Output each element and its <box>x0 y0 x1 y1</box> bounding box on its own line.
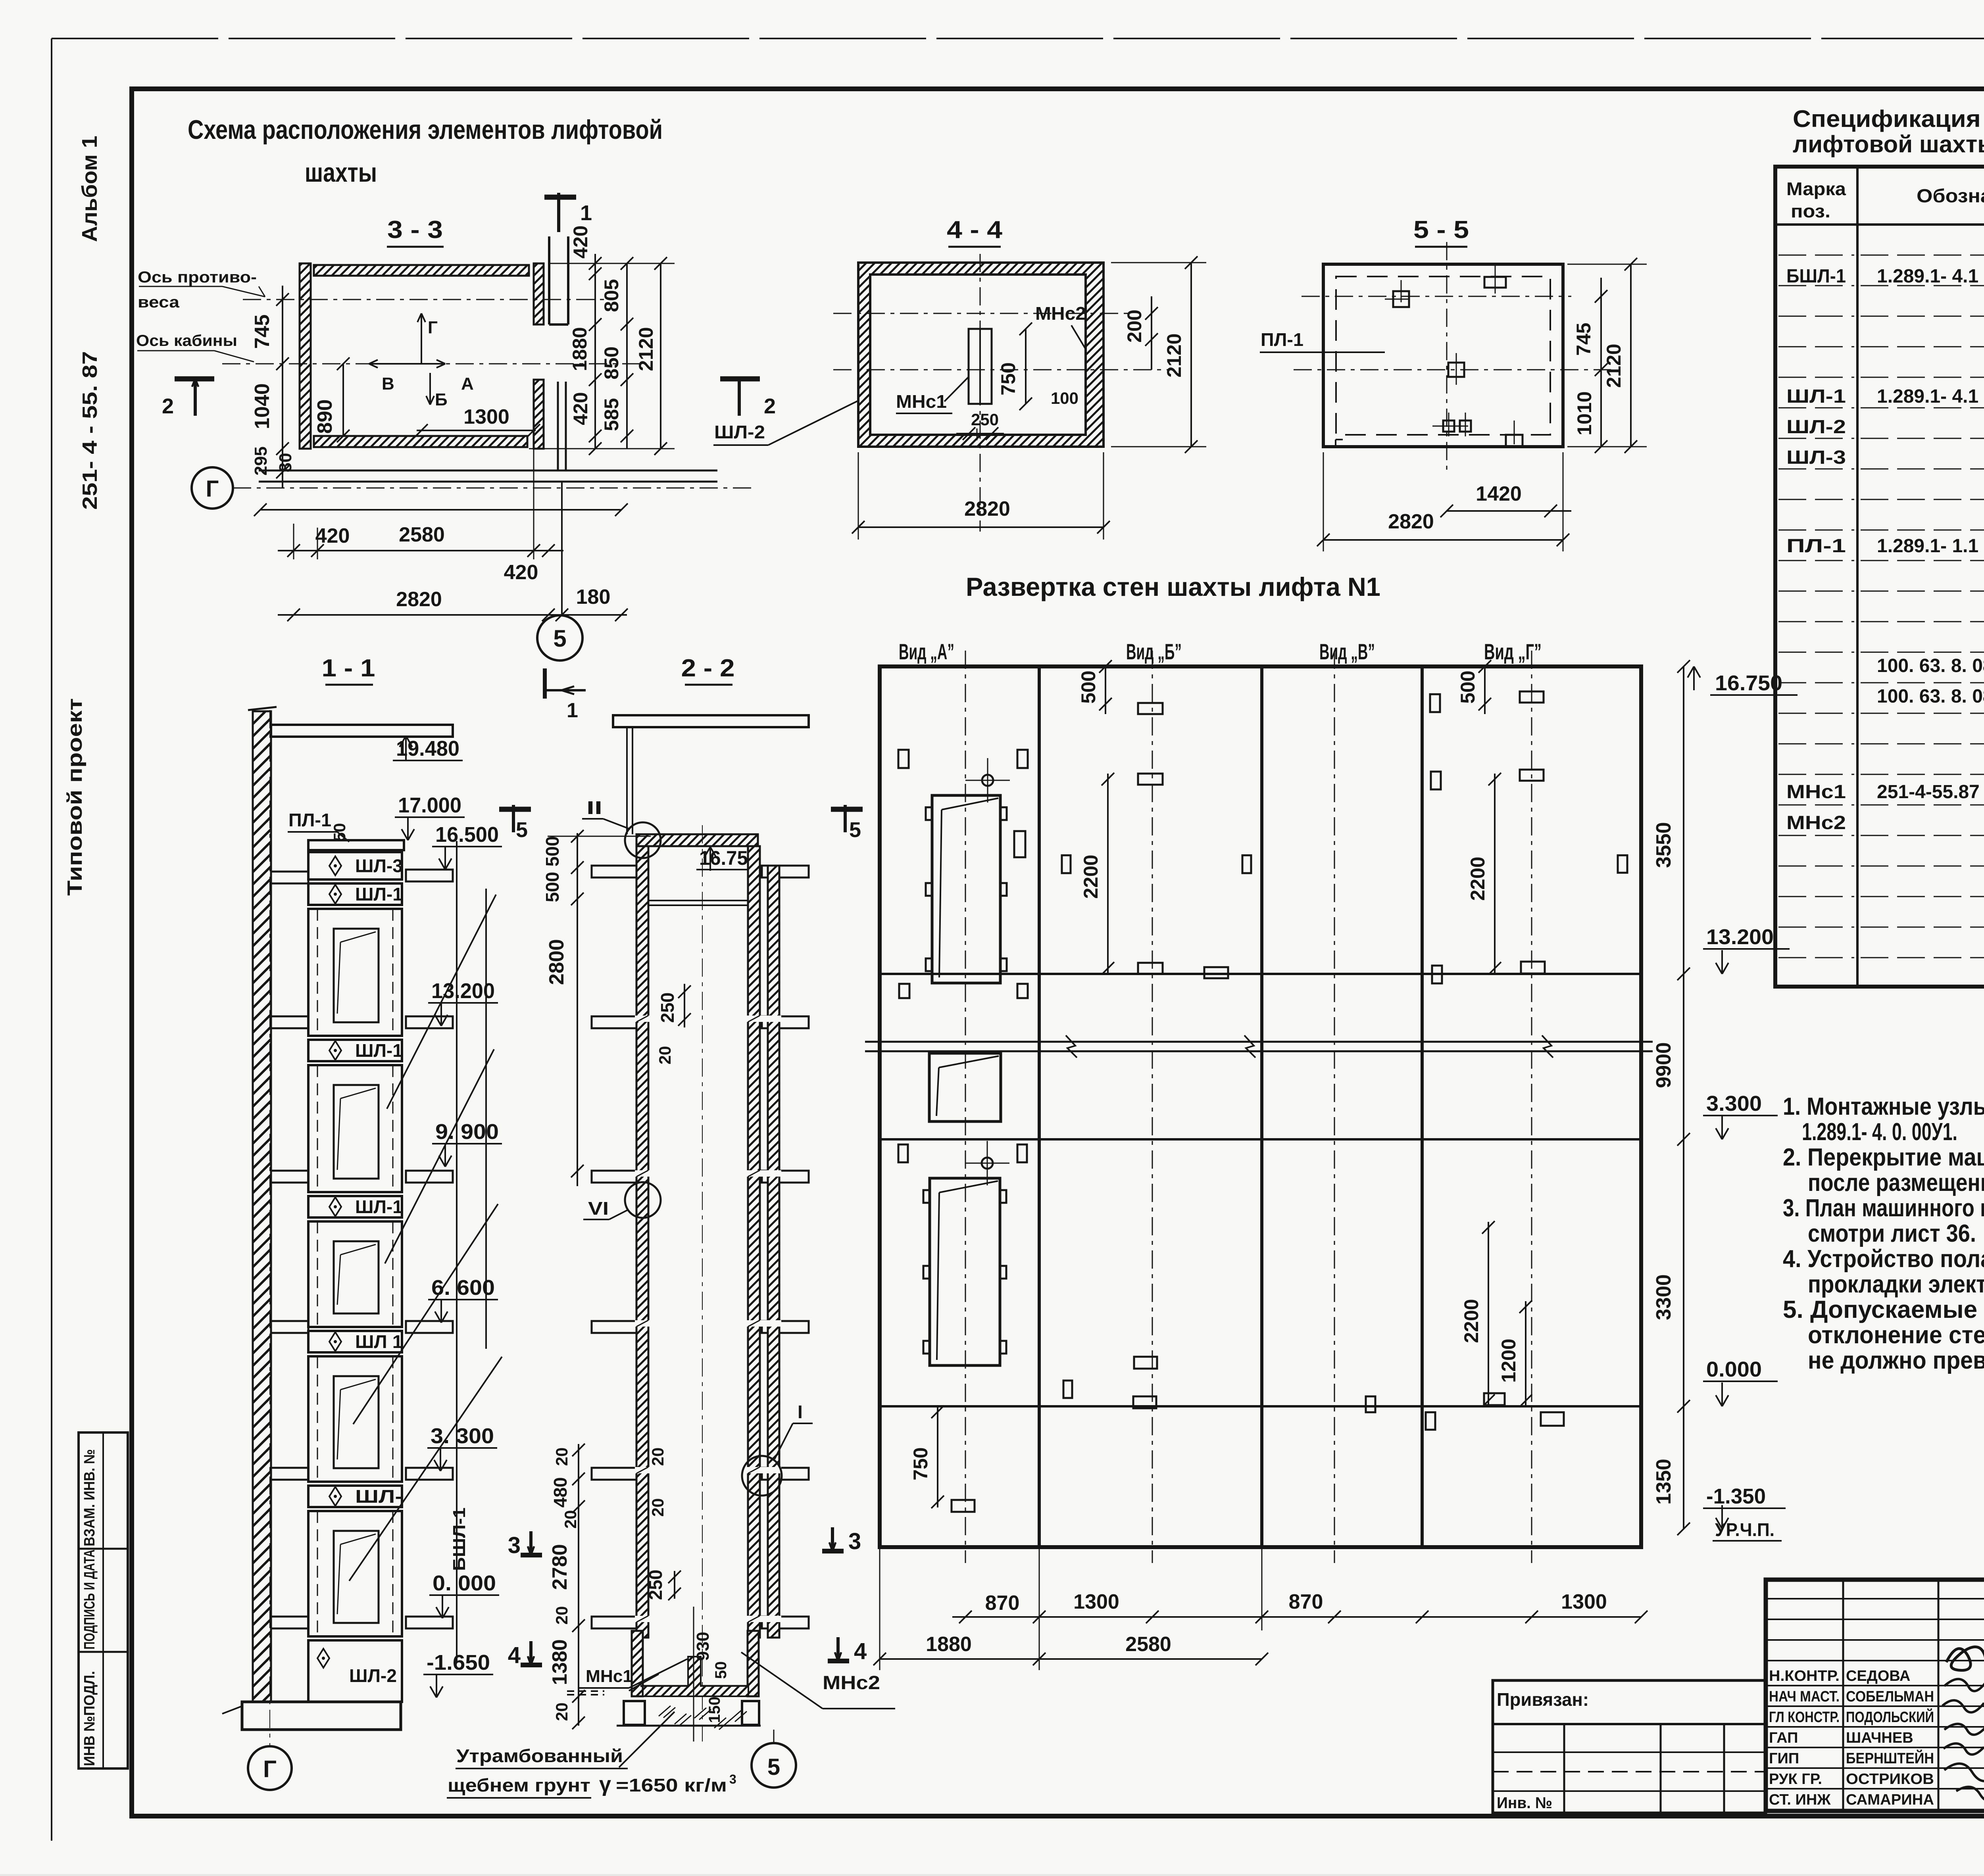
svg-text:ИНВ №ПОДЛ.: ИНВ №ПОДЛ. <box>81 1671 98 1766</box>
svg-text:20: 20 <box>552 1448 571 1466</box>
svg-text:16.750: 16.750 <box>1715 671 1782 695</box>
svg-text:поз.: поз. <box>1791 201 1830 221</box>
svg-text:1880: 1880 <box>926 1633 972 1656</box>
svg-text:II: II <box>586 797 602 818</box>
svg-text:0.000: 0.000 <box>1706 1358 1762 1381</box>
svg-text:4. Устройство пола в пр: 4. Устройство пола в приямках выполнять … <box>1783 1245 1984 1273</box>
svg-text:100: 100 <box>1051 389 1079 407</box>
svg-text:2120: 2120 <box>635 327 657 371</box>
svg-text:5: 5 <box>553 625 566 652</box>
svg-text:50: 50 <box>712 1661 730 1679</box>
svg-text:2: 2 <box>764 394 776 418</box>
svg-text:420: 420 <box>315 524 350 547</box>
svg-text:1.289.1- 4.1 05.0: 1.289.1- 4.1 05.0 <box>1877 266 1984 287</box>
svg-text:5: 5 <box>849 818 861 842</box>
svg-text:4: 4 <box>508 1642 521 1668</box>
svg-text:5: 5 <box>516 818 528 842</box>
svg-text:1300: 1300 <box>463 405 509 428</box>
svg-text:1300: 1300 <box>1073 1590 1119 1613</box>
svg-text:4 - 4: 4 - 4 <box>947 216 1003 244</box>
svg-text:МНс2: МНс2 <box>1786 812 1846 833</box>
svg-text:МНс1: МНс1 <box>1786 782 1846 803</box>
svg-text:БЕРНШТЕЙН: БЕРНШТЕЙН <box>1846 1749 1934 1767</box>
svg-text:VI: VI <box>588 1198 609 1219</box>
svg-text:Развертка стен шахты лифта: Развертка стен шахты лифта N1 <box>966 572 1380 601</box>
svg-text:-1.650: -1.650 <box>427 1651 490 1674</box>
svg-text:Альбом 1: Альбом 1 <box>78 136 102 242</box>
svg-text:251- 4 - 55. 87: 251- 4 - 55. 87 <box>79 351 102 510</box>
svg-text:1200: 1200 <box>1498 1338 1520 1383</box>
svg-text:Утрамбованный: Утрамбованный <box>456 1745 623 1766</box>
svg-text:3.300: 3.300 <box>1706 1092 1762 1116</box>
svg-text:3: 3 <box>508 1532 521 1558</box>
svg-text:500: 500 <box>1457 670 1479 703</box>
svg-text:Г: Г <box>263 1756 277 1782</box>
svg-text:2200: 2200 <box>1467 856 1489 901</box>
svg-text:Г: Г <box>428 318 438 337</box>
svg-text:Н.КОНТР.: Н.КОНТР. <box>1769 1668 1840 1684</box>
svg-text:МНс1: МНс1 <box>586 1667 632 1686</box>
svg-text:150: 150 <box>706 1697 723 1723</box>
svg-text:50: 50 <box>330 823 349 842</box>
svg-text:1380: 1380 <box>548 1639 571 1685</box>
svg-text:870: 870 <box>985 1592 1020 1615</box>
svg-text:1420: 1420 <box>1476 482 1522 505</box>
svg-text:805: 805 <box>600 279 623 312</box>
svg-text:420: 420 <box>569 225 592 258</box>
svg-text:прокладки электрооборудовани: прокладки электрооборудования . <box>1808 1271 1984 1298</box>
svg-text:1.289.1- 4. 0. 00У1.: 1.289.1- 4. 0. 00У1. <box>1802 1118 1957 1146</box>
svg-text:Вид „В”: Вид „В” <box>1319 639 1375 664</box>
svg-text:500: 500 <box>1077 670 1100 703</box>
svg-text:3: 3 <box>729 1772 736 1786</box>
svg-text:1040: 1040 <box>251 383 274 429</box>
svg-text:ПЛ-1: ПЛ-1 <box>288 810 331 830</box>
svg-text:СТ. ИНЖ: СТ. ИНЖ <box>1769 1792 1831 1808</box>
svg-text:2120: 2120 <box>1603 344 1625 388</box>
svg-text:1. Монтажные узлы приняты: 1. Монтажные узлы приняты по серии 1.289… <box>1783 1093 1984 1120</box>
svg-text:ШЛ-3: ШЛ-3 <box>1786 447 1846 468</box>
svg-text:Обозначение: Обозначение <box>1917 186 1984 207</box>
svg-text:9. 900: 9. 900 <box>435 1120 499 1144</box>
svg-text:ОСТРИКОВ: ОСТРИКОВ <box>1846 1771 1934 1788</box>
svg-text:Марка: Марка <box>1786 179 1846 199</box>
svg-text:Спецификация к схеме распол: Спецификация к схеме расположения элемен… <box>1793 106 1984 132</box>
svg-text:16.500: 16.500 <box>435 823 499 847</box>
svg-text:2200: 2200 <box>1080 854 1102 899</box>
svg-text:Привязан:: Привязан: <box>1497 1689 1589 1710</box>
svg-text:ГИП: ГИП <box>1769 1750 1799 1767</box>
svg-text:250: 250 <box>657 993 678 1023</box>
svg-text:2. Перекрытие машинного пом: 2. Перекрытие машинного помещения осущес… <box>1783 1144 1984 1171</box>
svg-text:ШЛ-1: ШЛ-1 <box>355 1196 403 1217</box>
svg-text:2200: 2200 <box>1460 1299 1482 1343</box>
svg-text:2820: 2820 <box>964 497 1010 520</box>
svg-text:3550: 3550 <box>1652 822 1675 868</box>
svg-text:МНс2: МНс2 <box>823 1672 880 1694</box>
svg-text:ПОДПИСЬ И ДАТА: ПОДПИСЬ И ДАТА <box>81 1550 98 1649</box>
svg-text:2820: 2820 <box>396 588 442 611</box>
svg-text:1.289.1- 4.1 31.0: 1.289.1- 4.1 31.0 <box>1877 386 1984 407</box>
svg-text:2 - 2: 2 - 2 <box>681 655 735 682</box>
svg-text:ШАЧНЕВ: ШАЧНЕВ <box>1846 1730 1913 1746</box>
svg-text:ШЛ-2: ШЛ-2 <box>349 1665 397 1686</box>
svg-text:ВЗАМ. ИНВ. №: ВЗАМ. ИНВ. № <box>81 1449 98 1546</box>
svg-text:ШЛ-2: ШЛ-2 <box>1786 417 1846 438</box>
svg-text:ШЛ 1: ШЛ 1 <box>355 1331 403 1352</box>
svg-text:850: 850 <box>600 346 623 379</box>
svg-text:9900: 9900 <box>1652 1042 1675 1088</box>
svg-text:890: 890 <box>313 399 336 434</box>
svg-text:УР.Ч.П.: УР.Ч.П. <box>1715 1519 1774 1540</box>
svg-text:20: 20 <box>561 1510 580 1529</box>
svg-text:17.000: 17.000 <box>398 793 461 817</box>
svg-text:500: 500 <box>542 872 563 902</box>
svg-text:2580: 2580 <box>1125 1633 1171 1656</box>
svg-text:20: 20 <box>648 1498 667 1517</box>
svg-text:Вид „Г”: Вид „Г” <box>1484 639 1542 664</box>
svg-text:1 - 1: 1 - 1 <box>322 655 375 682</box>
svg-text:750: 750 <box>997 362 1019 395</box>
svg-text:РУК ГР.: РУК ГР. <box>1769 1771 1822 1788</box>
svg-text:2800: 2800 <box>545 939 568 985</box>
svg-text:СОБЕЛЬМАН: СОБЕЛЬМАН <box>1846 1688 1934 1705</box>
svg-text:Вид „А”: Вид „А” <box>899 639 954 664</box>
svg-text:100. 63. 8. 080. 80: 100. 63. 8. 080. 80 <box>1877 686 1984 707</box>
svg-text:смотри лист 36.: смотри лист 36. <box>1808 1220 1976 1247</box>
svg-text:20: 20 <box>656 1046 674 1065</box>
svg-text:1: 1 <box>567 699 578 722</box>
svg-text:после размещения в нем необ: после размещения в нем необходимого обор… <box>1808 1169 1984 1196</box>
svg-text:2780: 2780 <box>548 1544 571 1590</box>
svg-text:МНс1: МНс1 <box>896 391 947 412</box>
svg-text:ШЛ-: ШЛ- <box>355 1486 403 1507</box>
svg-text:3. 300: 3. 300 <box>431 1424 494 1448</box>
svg-text:щебнем грунт: щебнем грунт <box>448 1775 590 1795</box>
svg-text:80: 80 <box>276 453 295 472</box>
svg-text:Вид „Б”: Вид „Б” <box>1126 639 1182 664</box>
svg-text:Б: Б <box>435 390 448 409</box>
svg-text:ПОДОЛЬСКИЙ: ПОДОЛЬСКИЙ <box>1846 1708 1934 1726</box>
svg-text:Инв. №: Инв. № <box>1497 1794 1552 1812</box>
svg-text:1880: 1880 <box>569 327 591 371</box>
svg-text:3300: 3300 <box>1652 1274 1675 1320</box>
svg-text:не должно превышать - при: не должно превышать - при высоте шахты д… <box>1808 1347 1984 1374</box>
svg-text:100. 63. 8. 080. 120: 100. 63. 8. 080. 120 <box>1877 655 1984 676</box>
svg-text:20: 20 <box>552 1703 571 1721</box>
svg-text:БШЛ-1: БШЛ-1 <box>1786 266 1846 287</box>
svg-text:0. 000: 0. 000 <box>433 1571 496 1595</box>
svg-text:20: 20 <box>552 1606 571 1625</box>
svg-text:5 - 5: 5 - 5 <box>1413 216 1469 244</box>
svg-text:1350: 1350 <box>1652 1459 1675 1505</box>
svg-text:Типовой проект: Типовой проект <box>63 698 87 896</box>
svg-text:3: 3 <box>848 1528 861 1554</box>
svg-text:2120: 2120 <box>1163 333 1185 377</box>
svg-text:отклонение стен шахты от: отклонение стен шахты от вертикальной пл… <box>1808 1321 1984 1349</box>
svg-text:СЕДОВА: СЕДОВА <box>1846 1668 1910 1684</box>
svg-text:3 - 3: 3 - 3 <box>387 216 443 244</box>
svg-text:ПЛ-1: ПЛ-1 <box>1261 329 1303 350</box>
svg-text:4: 4 <box>854 1638 867 1664</box>
svg-text:ГАП: ГАП <box>1769 1730 1798 1746</box>
svg-text:ГЛ КОНСТР.: ГЛ КОНСТР. <box>1769 1709 1840 1726</box>
svg-text:1300: 1300 <box>1561 1590 1607 1613</box>
svg-text:ШЛ-1: ШЛ-1 <box>355 1040 403 1061</box>
svg-text:420: 420 <box>504 561 538 584</box>
svg-text:лифтовой шахты, лифт N1: лифтовой шахты, лифт N1 <box>1793 131 1984 157</box>
svg-text:ШЛ-2: ШЛ-2 <box>714 422 765 442</box>
svg-text:ШЛ-1: ШЛ-1 <box>1786 386 1846 407</box>
svg-text:20: 20 <box>648 1448 667 1466</box>
svg-text:В: В <box>382 374 394 394</box>
svg-text:1.289.1- 1.1 30.0.00.0: 1.289.1- 1.1 30.0.00.0 <box>1877 536 1984 557</box>
svg-text:Схема расположения элементов: Схема расположения элементов лифтовой <box>188 115 663 145</box>
svg-text:А: А <box>461 374 474 394</box>
svg-text:180: 180 <box>576 586 611 609</box>
svg-text:ШЛ-1: ШЛ-1 <box>355 884 403 904</box>
svg-text:веса: веса <box>138 294 180 311</box>
svg-text:250: 250 <box>971 410 999 429</box>
svg-text:5. Допускаемые отклонения: 5. Допускаемые отклонения при монтаже бл… <box>1783 1296 1984 1323</box>
svg-text:745: 745 <box>251 315 274 349</box>
svg-text:ПЛ-1: ПЛ-1 <box>1786 536 1846 557</box>
svg-text:500: 500 <box>542 836 563 867</box>
svg-text:2580: 2580 <box>399 523 445 546</box>
svg-text:585: 585 <box>600 398 623 431</box>
svg-text:БШЛ-1: БШЛ-1 <box>450 1507 469 1571</box>
svg-text:2820: 2820 <box>1388 510 1434 533</box>
svg-text:шахты: шахты <box>305 157 377 188</box>
svg-text:Г: Г <box>206 476 219 502</box>
svg-text:480: 480 <box>550 1477 571 1508</box>
svg-text:γ: γ <box>599 1772 611 1796</box>
svg-text:-1.350: -1.350 <box>1706 1484 1766 1508</box>
svg-text:ШЛ-3: ШЛ-3 <box>355 856 403 876</box>
svg-text:1: 1 <box>580 201 592 225</box>
svg-text:=1650 кг/м: =1650 кг/м <box>616 1775 727 1795</box>
svg-text:Ось кабины: Ось кабины <box>136 332 237 349</box>
svg-text:1010: 1010 <box>1573 391 1596 435</box>
svg-text:2: 2 <box>162 394 174 418</box>
svg-text:I: I <box>798 1402 803 1422</box>
svg-text:870: 870 <box>1289 1590 1323 1613</box>
svg-text:745: 745 <box>1573 323 1595 355</box>
svg-text:750: 750 <box>909 1447 932 1480</box>
svg-text:НАЧ МАСТ.: НАЧ МАСТ. <box>1769 1688 1840 1705</box>
svg-text:930: 930 <box>693 1632 713 1661</box>
svg-text:13.200: 13.200 <box>1706 925 1774 949</box>
svg-text:420: 420 <box>569 392 592 425</box>
svg-text:200: 200 <box>1123 309 1146 342</box>
svg-text:250: 250 <box>645 1570 666 1600</box>
svg-text:5: 5 <box>767 1754 780 1780</box>
svg-text:САМАРИНА: САМАРИНА <box>1846 1792 1934 1808</box>
svg-text:13.200: 13.200 <box>431 979 495 1003</box>
svg-text:251-4-55.87 6.00.00.42.00: 251-4-55.87 6.00.00.42.00 <box>1877 782 1984 803</box>
svg-text:6. 600: 6. 600 <box>431 1276 495 1300</box>
svg-text:Ось противо-: Ось противо- <box>138 269 257 286</box>
svg-text:3. План машинного помещения: 3. План машинного помещения и характерис… <box>1783 1194 1984 1222</box>
